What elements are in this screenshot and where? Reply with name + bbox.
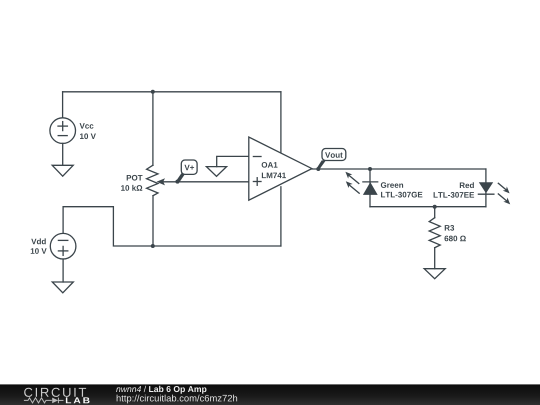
wire POT top stem	[152, 92, 154, 165]
label OA1 LM741	[262, 162, 286, 178]
ground at op-amp minus input	[206, 167, 226, 177]
footer text url	[117, 395, 237, 404]
ground below Vdd	[52, 282, 73, 293]
resistor R3	[429, 207, 440, 269]
label R3 680 Ohm	[444, 225, 465, 241]
wire Vdd to ground	[62, 259, 64, 282]
voltage source Vcc	[50, 118, 76, 144]
potentiometer POT wiper arrow	[157, 178, 166, 185]
label Vcc 10 V	[80, 123, 96, 139]
wire op-amp output to LEDs	[312, 168, 486, 170]
wire Vdd top to op-amp negative rail	[63, 207, 281, 246]
wire op-amp positive supply pin	[280, 92, 282, 153]
label POT 10 kOhm	[121, 175, 142, 191]
LED red emission arrows	[498, 183, 510, 204]
flag V+	[175, 160, 197, 184]
ground below Vcc	[52, 165, 73, 176]
potentiometer POT body	[147, 165, 158, 196]
op-amp OA1 body	[249, 137, 312, 200]
voltage source Vdd	[50, 233, 76, 259]
node junction: top rail to POT	[151, 90, 155, 94]
wire Vcc top stem	[62, 92, 64, 118]
wire op-amp negative supply pin	[280, 187, 282, 246]
label Vdd 10 V	[31, 238, 47, 253]
LED green LTL-307GE symbol	[363, 182, 378, 195]
node junction: POT bottom on Vdd rail	[151, 244, 155, 248]
label Red LTL-307EE	[434, 182, 475, 197]
wire green LED branch	[369, 169, 371, 207]
wire LED bottom rail	[370, 206, 486, 208]
logo CircuitLab wordmark	[24, 388, 90, 404]
wire top rail	[63, 91, 281, 93]
node junction: output to green LED	[368, 167, 372, 171]
wire wiper to op-amp plus input	[164, 181, 249, 183]
flag Vout	[316, 149, 346, 172]
label Green LTL-307GE	[381, 182, 423, 197]
LED green emission arrows	[345, 172, 359, 193]
node junction: R3 top	[433, 205, 437, 209]
LED red LTL-307EE symbol	[478, 182, 494, 194]
footer text title	[116, 386, 206, 394]
wire op-amp minus input	[217, 156, 249, 166]
ground below R3	[424, 269, 445, 279]
wire Vcc to ground	[62, 143, 64, 165]
wire POT bottom stem	[152, 196, 154, 246]
wire red LED branch	[485, 169, 487, 207]
